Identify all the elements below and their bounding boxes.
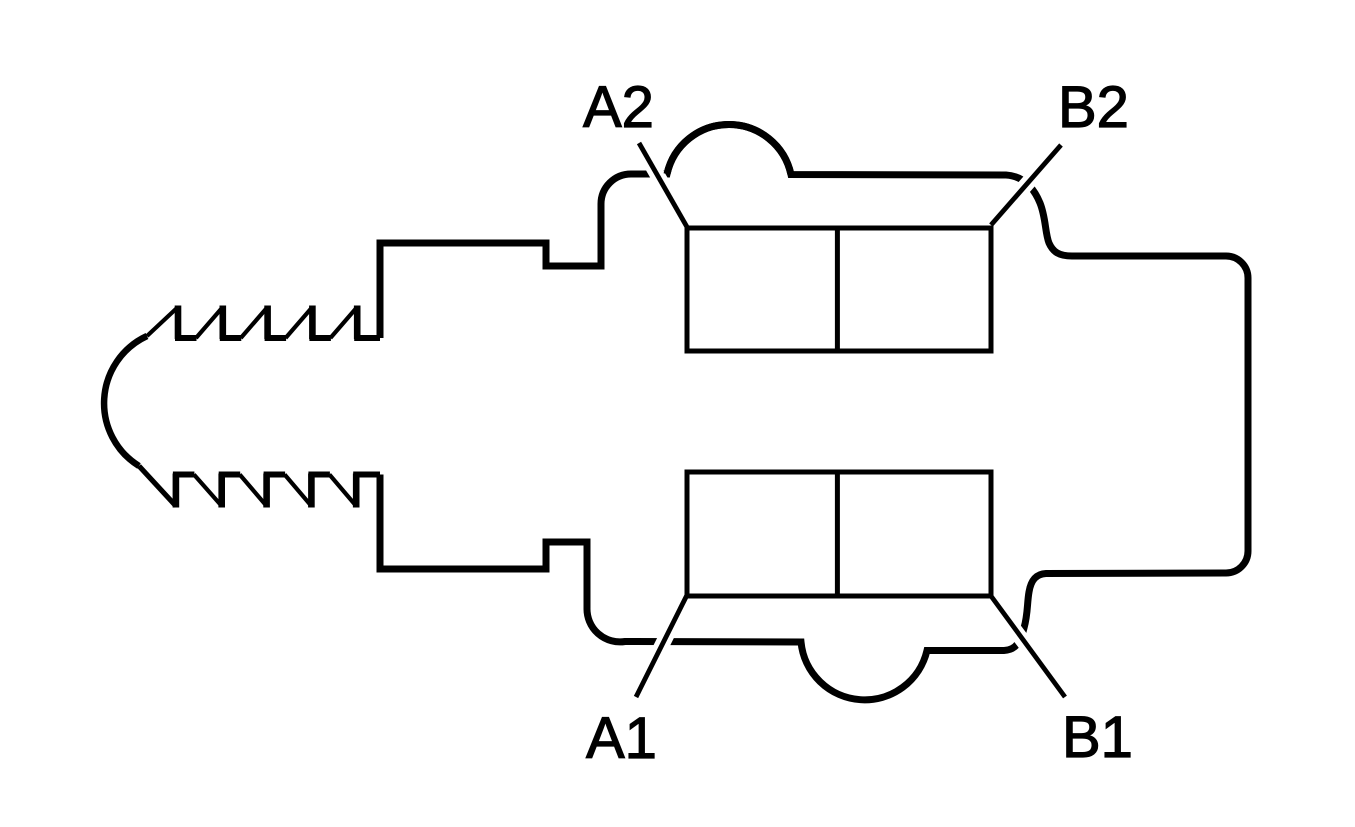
thread crests (bottom verticals): [176, 474, 356, 508]
leader halo B2: [997, 145, 1061, 218]
thread crests (top verticals): [178, 306, 357, 340]
leader halo A1: [636, 605, 682, 697]
svg-text:A2: A2: [583, 75, 654, 140]
divider top pair: [835, 228, 840, 351]
leader line B1: [991, 596, 1065, 697]
sensor body outline: [380, 124, 1248, 699]
svg-text:A1: A1: [586, 706, 657, 771]
svg-text:B2: B2: [1058, 75, 1129, 140]
leader halo A2: [639, 143, 682, 218]
svg-text:B1: B1: [1062, 705, 1133, 770]
stud tip arc: [104, 336, 147, 466]
leader line B2: [991, 145, 1061, 225]
divider bottom pair: [835, 472, 840, 596]
leader line A1: [636, 595, 687, 697]
leader line A2: [639, 143, 687, 227]
thread diagonals (top): [147, 307, 357, 338]
terminal cavity A1/B1 (bottom pair): [687, 472, 991, 596]
thread diagonals (bottom): [194, 475, 356, 507]
thread lead-in diagonal (bottom, from tip arc): [139, 466, 176, 506]
thread roots (top horizontals): [175, 335, 380, 341]
boot hump redraw (kept intact over halo): [667, 124, 791, 174]
leader halo B1: [996, 605, 1065, 697]
thread roots (bottom horizontals): [173, 472, 380, 478]
terminal cavity A2/B2 (top pair): [687, 228, 991, 351]
